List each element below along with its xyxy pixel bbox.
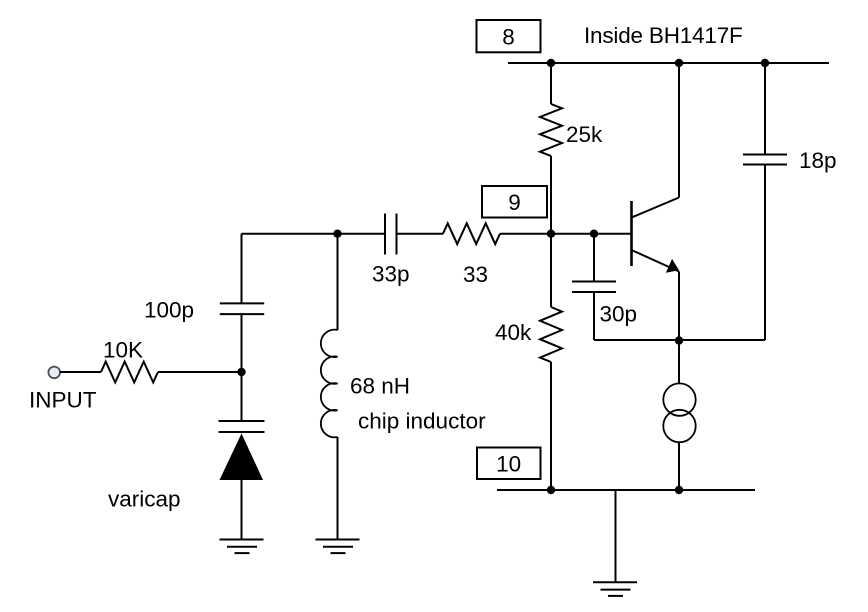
wire emitter node horizontal to 18p — [594, 339, 765, 341]
current source I1 — [663, 383, 695, 442]
wire varicap top lead — [241, 372, 243, 421]
wire 25k bottom to node 9 — [550, 156, 552, 234]
wire current source bottom lead — [678, 442, 680, 490]
resistor 40k — [540, 307, 562, 362]
resistor 25k — [540, 104, 562, 156]
svg-text:varicap: varicap — [108, 487, 181, 512]
svg-text:40k: 40k — [495, 320, 532, 345]
wire top supply rail (pin 8 net) — [508, 62, 829, 64]
varicap diode D1 — [219, 421, 265, 480]
node dot rail/18p — [761, 59, 769, 67]
wire 33 to base with node dots — [500, 233, 632, 235]
wire current source top lead — [678, 341, 680, 384]
wire 18p top lead — [764, 63, 766, 155]
svg-text:30p: 30p — [600, 302, 638, 327]
svg-text:100p: 100p — [144, 297, 194, 322]
capacitor 33p — [385, 214, 397, 255]
wire inductor top lead — [337, 234, 339, 330]
capacitor 30p — [572, 282, 616, 293]
wire emitter vertical to node — [678, 272, 680, 342]
wire 18p bottom lead — [764, 165, 766, 341]
svg-text:INPUT: INPUT — [29, 388, 97, 413]
svg-text:Inside BH1417F: Inside BH1417F — [584, 23, 743, 48]
transistor Q1 base bar — [630, 201, 633, 266]
svg-text:10K: 10K — [103, 338, 143, 363]
transistor Q1 emitter arrow — [666, 259, 679, 273]
wire varicap bottom lead — [241, 480, 243, 540]
node dot 40k/rail — [547, 486, 555, 494]
transistor Q1 emitter diagonal — [632, 250, 680, 272]
node dot inductor tap — [333, 230, 341, 238]
node dot base/30p — [590, 230, 598, 238]
node dot current source/rail — [675, 486, 683, 494]
inductor L1 68nH — [321, 330, 338, 438]
svg-text:10: 10 — [496, 451, 521, 476]
capacitor 18p — [743, 155, 787, 165]
svg-text:18p: 18p — [799, 148, 837, 173]
svg-text:68 nH: 68 nH — [350, 374, 410, 399]
wire ground stem center — [615, 490, 617, 582]
wire base net horizontal left segment — [242, 233, 386, 235]
resistor 33 — [443, 223, 500, 244]
wire 40k top lead — [550, 234, 552, 307]
input terminal circle — [48, 367, 60, 379]
wire between 33p and 33 — [397, 233, 444, 235]
svg-text:9: 9 — [508, 190, 521, 215]
svg-text:33p: 33p — [372, 262, 410, 287]
node dot 9/40k — [547, 230, 555, 238]
pin box 8 — [477, 20, 541, 52]
pin box 9 — [482, 186, 547, 218]
node dot rail/25k — [547, 59, 555, 67]
svg-text:33: 33 — [463, 262, 488, 287]
node dot rail/collector — [675, 59, 683, 67]
svg-text:25k: 25k — [566, 122, 603, 147]
wire 40k bottom to ground rail — [550, 362, 552, 490]
wire 100p bottom to node A — [241, 314, 243, 372]
ground symbol center — [593, 582, 637, 596]
wire bottom ground rail (pin 10 net) — [497, 489, 755, 491]
svg-text:8: 8 — [502, 24, 515, 49]
wire 25k top lead — [550, 63, 552, 104]
ground symbol varicap — [220, 540, 264, 554]
ground symbol inductor — [316, 540, 360, 554]
pin box 10 — [477, 448, 541, 480]
svg-text:chip inductor: chip inductor — [358, 409, 486, 434]
wire node A vertical top segment — [241, 234, 243, 304]
node dot emitter/30p/18p — [675, 336, 683, 344]
wire input to 10K — [60, 371, 101, 373]
wire 30p top lead — [593, 234, 595, 282]
transistor Q1 collector diagonal — [632, 198, 680, 218]
wire 30p bottom lead — [593, 292, 595, 340]
resistor 10K — [101, 362, 158, 383]
wire inductor bottom lead — [337, 437, 339, 540]
wire 10K to node A — [158, 371, 242, 373]
wire collector vertical to rail — [678, 63, 680, 198]
capacitor 100p — [220, 303, 264, 314]
node dot A (10K/100p/varicap) — [237, 368, 245, 376]
